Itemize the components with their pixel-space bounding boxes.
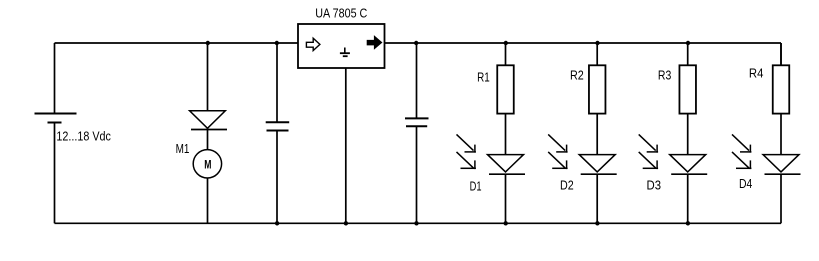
svg-text:D3: D3 xyxy=(647,178,662,193)
svg-text:UA 7805 C: UA 7805 C xyxy=(315,6,367,21)
svg-text:D1: D1 xyxy=(470,178,482,193)
svg-text:12...18 Vdc: 12...18 Vdc xyxy=(56,129,111,144)
svg-text:R2: R2 xyxy=(570,68,584,83)
svg-text:R4: R4 xyxy=(749,66,764,81)
svg-text:D4: D4 xyxy=(739,176,752,191)
svg-text:R3: R3 xyxy=(658,68,671,83)
svg-text:R1: R1 xyxy=(477,69,490,84)
svg-text:D2: D2 xyxy=(560,178,574,193)
svg-text:M: M xyxy=(204,158,211,172)
svg-text:M1: M1 xyxy=(176,141,190,156)
